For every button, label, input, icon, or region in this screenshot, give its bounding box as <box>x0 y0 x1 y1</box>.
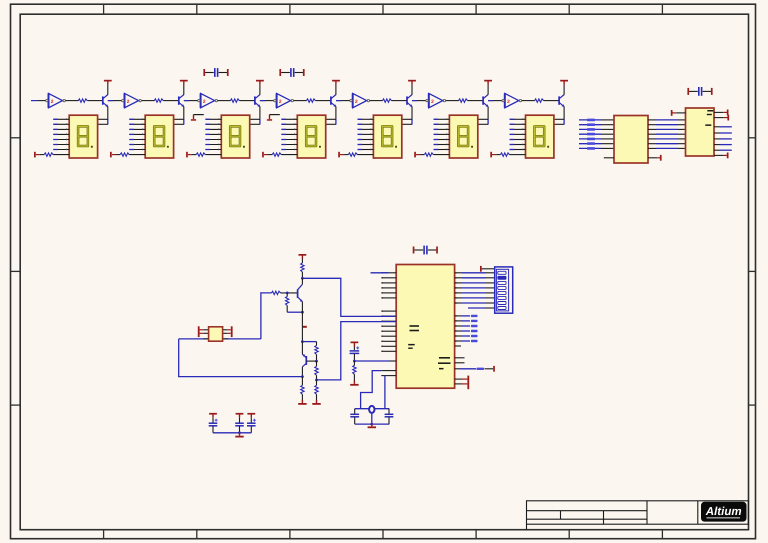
resistor R24 <box>316 342 318 346</box>
display DS3 common pin with resistor R13 <box>186 152 188 158</box>
driver U9 <box>686 108 715 156</box>
wire crystal bottom rail <box>355 423 390 425</box>
resistor R28 RST to ground <box>353 361 355 366</box>
op-amp buffer U5 <box>353 93 367 107</box>
node collector R22 <box>301 277 304 280</box>
wire emitter Q3 to display DS3 <box>259 107 261 120</box>
U8 left port pins group 2 <box>381 310 396 312</box>
wire resistor R2 to base Q2 <box>163 100 179 102</box>
node B wire U8 to lower stage <box>317 322 397 380</box>
node collector Q9 <box>301 375 304 378</box>
node base Q9 <box>315 360 318 363</box>
wire emitter Q8 down <box>301 302 303 342</box>
wire collector Q5 to VCC <box>411 84 413 95</box>
capacitor C7 <box>388 409 390 414</box>
node emitter Q8 / stage 2 <box>301 340 304 343</box>
power VCC Q4 <box>332 80 340 82</box>
wire buffer U2 output <box>142 100 155 102</box>
capacitor C10 polarized <box>247 413 255 415</box>
wire mic to emitter Q8 <box>179 339 303 377</box>
svg-text:2: 2 <box>127 99 130 105</box>
resistor R2 <box>154 99 163 102</box>
display DS4 common pin with resistor R14 <box>262 152 264 158</box>
resistor R23 base-emitter Q8 <box>286 293 288 297</box>
wire XTAL1 <box>361 371 382 409</box>
transistor Q7 <box>558 96 560 104</box>
resistor R1 <box>78 99 87 102</box>
power VCC driver stage <box>299 254 307 256</box>
wire resistor R3 to base Q3 <box>239 100 255 102</box>
wire resistor R4 to base Q4 <box>315 100 331 102</box>
wire collector Q4 to VCC <box>335 84 337 95</box>
display DS7 common pin with resistor R17 <box>490 152 492 158</box>
7-segment display DS7 <box>526 115 554 158</box>
svg-text:2: 2 <box>279 99 282 105</box>
transistor Q3 <box>254 96 256 104</box>
op-amp buffer U7 <box>505 93 519 107</box>
capacitor C3 bypass for U9 <box>687 88 689 95</box>
wire collector Q1 to VCC <box>107 84 109 95</box>
power bar U9 left pin 1 <box>671 110 673 116</box>
ground stub near display DS4 <box>269 115 271 120</box>
transistor Q6 <box>482 96 484 104</box>
op-amp buffer U4 <box>277 93 291 107</box>
wire collector Q3 to VCC <box>259 84 261 95</box>
wire mic to base network Q8 <box>261 293 272 339</box>
resistor R26 to ground <box>316 380 318 385</box>
wire from Q5 stage to buffer U6 <box>412 100 426 102</box>
microcontroller U8 <box>396 265 454 389</box>
wire emitter Q5 to display DS5 <box>411 107 413 120</box>
svg-text:Altium: Altium <box>705 506 742 518</box>
svg-text:2: 2 <box>355 99 358 105</box>
wire buffer U7 output <box>522 100 535 102</box>
transistor Q8 <box>301 278 303 284</box>
capacitor C1 <box>203 69 205 76</box>
wire resistor R7 to base Q7 <box>544 100 560 102</box>
ground R27 <box>301 400 303 403</box>
display DS3 segment pins <box>205 118 221 120</box>
power VCC RST <box>351 342 359 344</box>
capacitor C8 polarized <box>209 413 217 415</box>
capacitor C9 <box>236 413 244 415</box>
wire RST to U8 <box>354 360 389 362</box>
capacitor C4 bypass for U8 <box>413 247 415 254</box>
U9 right pin VCC <box>714 111 723 113</box>
crystal Y1 <box>369 406 374 413</box>
wire emitter Q7 to display DS7 <box>563 107 565 120</box>
svg-text:2: 2 <box>507 99 510 105</box>
svg-text:2: 2 <box>203 99 206 105</box>
resistor R4 <box>306 99 315 102</box>
op-amp buffer U3 <box>201 93 215 107</box>
transistor Q1 <box>102 96 104 104</box>
resistor R27 to ground <box>301 377 303 386</box>
power bar RP1 bottom-right pin <box>648 157 657 159</box>
power VCC Q3 <box>256 80 264 82</box>
wire buffer U3 output <box>218 100 231 102</box>
wire emitter Q6 to display DS6 <box>487 107 489 120</box>
connector J1 <box>495 267 513 313</box>
wire buffer U4 output <box>294 100 307 102</box>
display DS7 segment pins <box>510 118 526 120</box>
ground R26 <box>316 400 318 403</box>
U8 VCC pins power bar <box>455 378 462 380</box>
U9 right pin 2 power bar <box>714 117 724 119</box>
wire mic loop bottom <box>179 338 261 340</box>
U8 short pin <box>455 345 461 347</box>
U8 pins ALE PSEN <box>455 357 465 359</box>
wire 8th header net <box>468 307 486 309</box>
wire resistor R1 to base Q1 <box>87 100 103 102</box>
resistor R5 <box>383 99 392 102</box>
ground caps <box>239 433 241 436</box>
U8 XTAL pins <box>381 370 396 372</box>
capacitor C2 <box>279 69 281 76</box>
display DS6 common pin with resistor R16 <box>414 152 416 158</box>
electret mic MK1 <box>198 326 200 337</box>
display DS2 common pin with resistor R12 <box>110 152 112 158</box>
wire resistor R6 to base Q6 <box>468 100 484 102</box>
resistor network RP1 <box>614 116 648 164</box>
display DS2 segment pins <box>129 118 145 120</box>
op-amp buffer U1 <box>49 93 63 107</box>
power VCC Q7 <box>560 80 568 82</box>
display DS5 segment pins <box>358 118 374 120</box>
resistor R6 <box>459 99 468 102</box>
ground stub near display DS3 <box>193 115 195 120</box>
wire collector Q6 to VCC <box>487 84 489 95</box>
resistor R21 base Q8 <box>272 291 281 294</box>
7-segment display DS1 <box>69 115 97 158</box>
capacitor C5 polarized <box>353 347 355 351</box>
7-segment display DS6 <box>449 115 477 158</box>
U8 EA pin wire to power bar <box>455 368 460 370</box>
wire buffer U1 output <box>66 100 79 102</box>
display DS4 segment pins <box>281 118 297 120</box>
7-segment display DS3 <box>221 115 249 158</box>
wire from Q3 stage to buffer U4 <box>260 100 274 102</box>
wire emitter Q1 to display DS1 <box>107 107 109 120</box>
transistor Q2 <box>178 96 180 104</box>
U8 right pins to header J1 <box>455 272 462 274</box>
wire emitter Q4 to display DS4 <box>335 107 337 120</box>
op-amp buffer U6 <box>429 93 443 107</box>
node RST <box>353 360 356 363</box>
resistor R3 <box>230 99 239 102</box>
node base Q8 <box>286 292 289 295</box>
wire cap bus <box>213 432 251 434</box>
power VCC Q1 <box>104 80 112 82</box>
transistor Q5 <box>406 96 408 104</box>
display DS1 common pin with resistor R11 <box>34 152 36 158</box>
7-segment display DS2 <box>145 115 173 158</box>
resistor R7 <box>535 99 544 102</box>
display DS6 segment pins <box>434 118 450 120</box>
transistor Q9 <box>301 342 303 355</box>
power VCC Q2 <box>180 80 188 82</box>
wire input net to buffer U1 <box>31 100 38 102</box>
resistor R22 collector load <box>301 263 304 272</box>
wire collector Q7 to VCC <box>563 84 565 95</box>
wire base Q9 <box>306 360 316 362</box>
power bar header J1 pin1 <box>480 266 482 272</box>
wires RP1 to U9 <box>648 119 656 121</box>
7-segment display DS4 <box>297 115 325 158</box>
resistor R25 <box>316 361 318 366</box>
wire collector Q9 down <box>301 367 303 377</box>
wires segment bus into resistor network RP1 <box>579 119 601 121</box>
title block <box>527 501 749 524</box>
display DS1 segment pins <box>53 118 69 120</box>
wire from Q1 stage to buffer U2 <box>108 100 122 102</box>
svg-text:2: 2 <box>51 99 54 105</box>
ground RST <box>353 381 355 384</box>
wire collector Q2 to VCC <box>183 84 185 95</box>
wire buffer U6 output <box>446 100 459 102</box>
wire crystal top rail <box>355 408 390 410</box>
wire XTAL2 <box>384 376 386 409</box>
power VCC Q6 <box>484 80 492 82</box>
display DS5 common pin with resistor R15 <box>338 152 340 158</box>
op-amp buffer U2 <box>125 93 139 107</box>
node A wire driver stage to U8 <box>302 278 396 316</box>
wire resistor R5 to base Q5 <box>392 100 408 102</box>
svg-text:2: 2 <box>431 99 434 105</box>
U8 left port pins group 1 <box>381 272 396 274</box>
7-segment display DS5 <box>373 115 401 158</box>
wire from Q4 stage to buffer U5 <box>336 100 350 102</box>
net marker red <box>303 326 307 328</box>
ground crystal <box>371 423 373 426</box>
wire from Q2 stage to buffer U3 <box>184 100 198 102</box>
capacitor C6 <box>354 409 356 414</box>
U9 right signal pins <box>714 126 720 128</box>
pin stub RP1 bottom-left <box>604 157 614 159</box>
transistor Q4 <box>330 96 332 104</box>
U9 right bottom power bar pin <box>714 154 723 156</box>
wire net stub U8 pin P1.0 <box>371 272 389 274</box>
U8 right pins group B with net labels <box>455 315 462 317</box>
wire emitter Q2 to display DS2 <box>183 107 185 120</box>
Altium logo <box>701 502 747 522</box>
wire from Q6 stage to buffer U7 <box>488 100 502 102</box>
wire buffer U5 output <box>370 100 383 102</box>
power VCC Q5 <box>408 80 416 82</box>
U8 RST pin <box>389 360 396 362</box>
